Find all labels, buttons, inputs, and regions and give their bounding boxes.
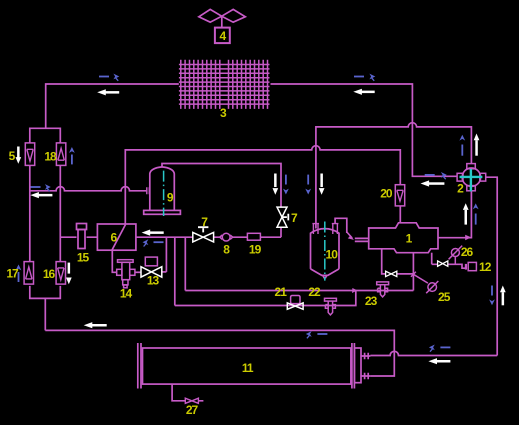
oil valve under compressor (left) bbox=[386, 271, 397, 276]
wire top-left outer loop to condenser bbox=[46, 84, 179, 128]
wire compressor discharge to 4-way valve bottom port bbox=[438, 191, 471, 238]
white arrow down, right of check valve 16 bbox=[66, 263, 72, 285]
four-way valve 2 bbox=[457, 164, 486, 192]
svg-text:13: 13 bbox=[147, 274, 160, 288]
white arrow left, top-left line bbox=[97, 89, 119, 95]
check valve 18 bbox=[56, 143, 65, 166]
oil separator / receiver 9 bbox=[144, 167, 181, 216]
blue arrow left, box6 right line bbox=[143, 239, 164, 246]
wire valve 14 to valve 13 bbox=[135, 271, 141, 273]
solenoid valve 21 bowtie bbox=[287, 303, 303, 309]
flow arrow into compressor suction bbox=[347, 232, 352, 238]
compressor 1 bbox=[369, 223, 438, 253]
wire strainer 15 line bbox=[60, 236, 97, 238]
globe valve 7 (horizontal, on liquid line) bbox=[193, 227, 214, 242]
check valve 17 bbox=[24, 262, 33, 285]
svg-text:4: 4 bbox=[220, 29, 227, 43]
heat exchanger box 6 bbox=[97, 224, 135, 250]
pressure gauge 25 bbox=[413, 274, 438, 293]
svg-text:21: 21 bbox=[275, 285, 288, 299]
white arrow left, top-right line bbox=[353, 89, 374, 95]
flow arrow junction tick at gauge 25 tap bbox=[411, 272, 416, 277]
white arrow left, 4-way valve left line bbox=[421, 180, 445, 186]
wire evaporator drain to valve 27 bbox=[172, 384, 203, 401]
svg-text:19: 19 bbox=[249, 243, 262, 257]
wire fitting tick before 12 bbox=[465, 264, 467, 270]
wire valve 13 right riser bbox=[162, 271, 167, 273]
wire drop to line y305.5 bbox=[174, 237, 176, 305]
blue arrow left, return line y355.5 bbox=[429, 345, 451, 352]
svg-text:1: 1 bbox=[406, 232, 413, 246]
wire line y305.5 with riser at x355.8 bbox=[175, 291, 356, 306]
blue arrow up, left of check valve 17 bbox=[16, 265, 22, 283]
white arrow up, right vertical bbox=[500, 286, 506, 306]
solenoid valve 13 bowtie bbox=[141, 267, 162, 277]
service valve 23 bbox=[377, 282, 389, 297]
evaporator shell 11 bbox=[138, 343, 371, 389]
solenoid coil of valve 13 bbox=[145, 257, 157, 266]
fan 4 bbox=[199, 9, 246, 43]
wire box6 bottom to valve 14 bbox=[112, 250, 116, 272]
wire long return line y355.5 (hop at x394.3) bbox=[370, 351, 497, 355]
strainer 15 bbox=[77, 224, 87, 249]
wire compressor suction stub double line bbox=[355, 238, 369, 241]
flow arrow at discharge corner bbox=[465, 235, 471, 241]
accumulator tank 10 bbox=[311, 222, 340, 281]
white arrow down, left of x281 drop bbox=[273, 174, 279, 195]
wire check valve 20 to compressor top bbox=[399, 206, 401, 223]
white arrow up, 4-way valve bottom left side bbox=[463, 203, 469, 224]
wire compressor right drop bbox=[431, 253, 433, 265]
white arrow down, left of check valve 5 bbox=[16, 147, 22, 164]
wire line y290.5 bbox=[185, 290, 413, 292]
flow arrow into y290.5 junction bbox=[352, 288, 357, 293]
wire evaporator bottom stub up and left line y330.4 bbox=[45, 330, 394, 376]
svg-text:12: 12 bbox=[479, 260, 492, 274]
svg-text:25: 25 bbox=[438, 290, 451, 304]
blue arrow down, left of tank10 drop bbox=[305, 175, 311, 195]
sight glass 8 bbox=[220, 233, 233, 241]
check valve 16 bbox=[56, 262, 65, 285]
white arrow left, bridge mid line bbox=[30, 192, 52, 198]
service valve 22 bbox=[325, 298, 337, 315]
svg-text:27: 27 bbox=[186, 403, 199, 417]
svg-text:7: 7 bbox=[291, 211, 298, 225]
wire oil valve to center junction bbox=[397, 273, 413, 275]
wire line y264.3 to pressure switch 12 bbox=[432, 264, 465, 268]
wire bridge right column bbox=[59, 165, 61, 261]
svg-text:20: 20 bbox=[380, 187, 393, 201]
wire bridge mid tap to receiver 9 (hops at x60.3 and x125.3) bbox=[30, 187, 147, 191]
white arrow left, box6 right line bbox=[142, 230, 164, 236]
wire liquid line y237.2 segments bbox=[136, 236, 281, 238]
svg-text:16: 16 bbox=[43, 267, 56, 281]
wire bridge bottom feed bbox=[44, 298, 46, 330]
wire tank10 right stub to compressor suction bbox=[335, 218, 347, 233]
wire top-right outer loop from condenser to 4-way valve left port bbox=[271, 84, 458, 176]
svg-text:3: 3 bbox=[220, 106, 227, 120]
wire compressor bottom left drop to oil valve bbox=[382, 249, 386, 274]
pressure switch 12 bbox=[468, 262, 476, 270]
svg-text:2: 2 bbox=[457, 182, 464, 196]
svg-text:14: 14 bbox=[120, 287, 133, 301]
condenser coil 3 bbox=[179, 60, 270, 109]
blue arrow right, bridge mid line bbox=[31, 184, 51, 191]
svg-text:22: 22 bbox=[308, 285, 321, 299]
blue arrow up, right of check valve 18 bbox=[69, 147, 75, 164]
pressure gauge 26 bbox=[449, 246, 463, 265]
white arrow left, return line y355.5 bbox=[428, 358, 450, 364]
filter drier 19 bbox=[247, 233, 260, 240]
blue arrow up, 4-way valve top left side bbox=[459, 135, 465, 156]
wire drop to valve 13 bbox=[165, 237, 167, 272]
wire bridge left column bbox=[29, 165, 31, 261]
valve on pressure switch line (right) bbox=[438, 261, 448, 266]
blue arrow right, top-right line bbox=[354, 74, 375, 81]
svg-text:5: 5 bbox=[9, 149, 16, 163]
drain valve 27 bbox=[185, 398, 198, 403]
svg-text:17: 17 bbox=[6, 267, 19, 281]
blue arrow left, line y330.4 bbox=[306, 331, 328, 338]
blue arrow right, 4-way valve left line bbox=[425, 172, 447, 179]
wire bridge bottom bar bbox=[30, 286, 61, 299]
blue arrow up, 4-way valve bottom right side bbox=[473, 203, 479, 224]
wire suction line y127 from tank10 to 4-way valve top (hop at x412.4) bbox=[316, 123, 472, 229]
svg-text:23: 23 bbox=[365, 294, 378, 308]
globe valve 7 (vertical, on tank 9 line) bbox=[277, 207, 288, 227]
expansion valve 14 bbox=[117, 260, 135, 288]
check valve 20 bbox=[395, 185, 404, 206]
white arrow down, right of tank10 drop bbox=[319, 174, 325, 195]
white arrow up, 4-way valve top right side bbox=[474, 134, 480, 156]
wire discharge line y150 from box6 top to check valve 20 (hop at x315.9) bbox=[125, 146, 400, 224]
wire tank9 apex to vertical valve 7 bbox=[162, 164, 281, 208]
white arrow left, line y330.4 bbox=[84, 322, 107, 328]
wire vertical valve 7 to liquid line bbox=[280, 227, 282, 237]
wire drop to line y290.5 bbox=[184, 237, 186, 290]
svg-text:8: 8 bbox=[223, 243, 230, 257]
wire compressor center drop bbox=[412, 253, 414, 291]
blue arrow right, top-left line bbox=[99, 74, 119, 81]
svg-text:9: 9 bbox=[167, 191, 174, 205]
check valve 5 bbox=[25, 143, 34, 166]
wire 4-way valve right port to right vertical bbox=[486, 177, 498, 355]
blue arrow down, right vertical bbox=[489, 286, 495, 306]
svg-text:18: 18 bbox=[44, 150, 57, 164]
blue arrow down, right of x281 drop bbox=[283, 175, 289, 195]
svg-text:15: 15 bbox=[77, 251, 90, 265]
svg-text:11: 11 bbox=[242, 361, 254, 375]
solenoid coil of valve 21 bbox=[291, 296, 300, 304]
wire bridge top bar bbox=[30, 128, 61, 143]
svg-text:10: 10 bbox=[326, 248, 339, 262]
svg-text:26: 26 bbox=[461, 245, 474, 259]
